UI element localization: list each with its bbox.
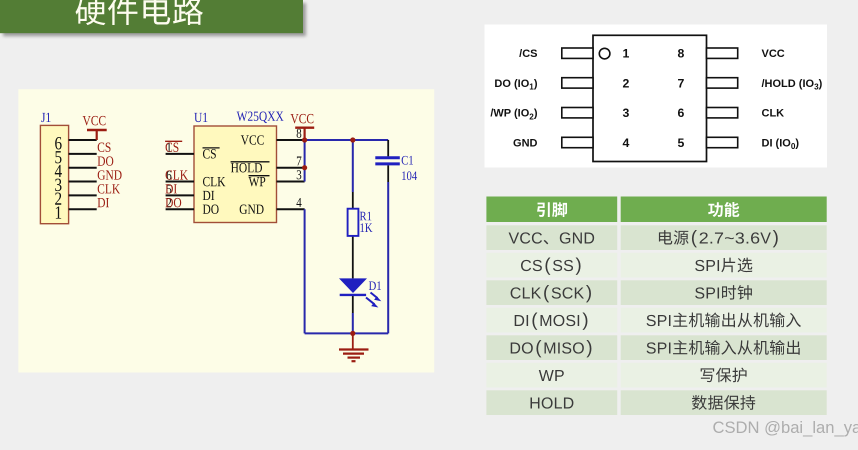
table row 2 background [486, 253, 826, 278]
U1 pin number 5 [167, 185, 171, 194]
U1 pin name WP [249, 176, 270, 187]
U1 pin name DI [203, 191, 214, 200]
label D1 [369, 281, 381, 290]
svg-text:CLK: CLK [762, 108, 785, 120]
net label CS (J1) [98, 143, 111, 152]
table cell text SPI主机输入从机输出 [647, 340, 800, 355]
wire U1 pin 2 stub [166, 208, 194, 210]
wire U1 pin 8 stub [277, 139, 305, 141]
wire C1 branch bottom [387, 165, 389, 333]
table cell text CS（SS） [521, 257, 581, 274]
wire U1 pin 1 stub [166, 153, 194, 155]
wire U1 pin 3 stub [277, 181, 305, 183]
J1 pin number 4 [55, 165, 62, 177]
wire J1 pin 1 stub [69, 208, 97, 210]
U1 pin name DO [203, 205, 219, 214]
svg-text:/CS: /CS [519, 48, 537, 60]
U1 pin number 1 [167, 143, 171, 152]
table row 5 background [486, 335, 826, 360]
svg-text:CSDN @bai_lan_ya: CSDN @bai_lan_ya [713, 418, 858, 437]
svg-text:VCC: VCC [762, 48, 785, 60]
schematic sheet background [18, 89, 434, 372]
pin stub left 1 [562, 48, 593, 58]
pin stub left 4 [562, 137, 593, 147]
net label CLK (U1 left) [166, 170, 188, 179]
refdes J1 [41, 113, 50, 122]
svg-text:8: 8 [678, 47, 685, 61]
U1 pin name VCC [241, 135, 264, 144]
net label VCC (U1) [291, 114, 314, 123]
wire vertical to pins 7 and 3 [304, 140, 306, 182]
svg-text:7: 7 [678, 76, 685, 90]
wire R1 to D1 [352, 236, 354, 279]
table cell text 电源（2.7~3.6V） [659, 230, 778, 247]
resistor R1 [348, 209, 359, 236]
junction node R1 top [350, 137, 355, 142]
value 104 [402, 171, 417, 180]
table cell text CLK（SCK） [511, 285, 591, 302]
J1 pin number 6 [55, 137, 61, 149]
U1 pin number 6 [167, 171, 172, 180]
LED D1 arrows [366, 293, 381, 308]
label R1 [360, 212, 371, 221]
net label DO (J1) [98, 156, 114, 165]
IC U1 body [194, 126, 277, 223]
wire U1 pin 7 stub [277, 167, 305, 169]
net label DI (U1 left) [165, 184, 176, 193]
value W25QXX [237, 112, 284, 124]
wire D1 to bottom rail [352, 295, 354, 333]
svg-text:/HOLD (IO3): /HOLD (IO3) [762, 78, 823, 92]
table row 1 background [486, 225, 826, 250]
table cell text SPI时钟 [695, 285, 752, 300]
wire R1 branch top [352, 140, 354, 209]
net label CS (U1 left) [165, 141, 182, 152]
wire U1 pin 5 stub [166, 194, 194, 196]
table cell text DI（MOSI） [515, 312, 588, 329]
net label VCC (J1) [83, 116, 106, 125]
pin stub left 2 [562, 78, 593, 88]
junction node ground rail [350, 331, 355, 336]
wire J1 pin 2 stub [69, 194, 97, 196]
ground symbol [339, 333, 369, 361]
power symbol VCC (J1) [87, 130, 107, 140]
junction node pin7 [302, 165, 307, 170]
wire J1 pin 4 stub [69, 167, 97, 169]
title banner [0, 0, 303, 33]
pinout panel background [485, 25, 828, 168]
U1 pin number 3 [297, 170, 302, 179]
wire U1 pin 6 stub [166, 181, 194, 183]
header text 功能 [708, 202, 739, 217]
svg-text:6: 6 [678, 106, 685, 120]
refdes U1 [194, 113, 207, 122]
net label DO (U1 left) [165, 198, 181, 207]
wire C1 branch top [387, 140, 389, 156]
wire U1 pin 4 stub [277, 208, 305, 210]
table cell text DO（MISO） [511, 340, 592, 357]
svg-text:5: 5 [678, 136, 685, 150]
U1 pin name CS [203, 148, 220, 159]
U1 pin number 4 [296, 198, 301, 207]
table cell text WP [539, 370, 564, 381]
J1 pin number 5 [55, 151, 61, 163]
table cell text SPI主机输出从机输入 [647, 313, 801, 328]
wire GND pin4 vertical [304, 209, 306, 333]
chip body (SOIC-8) [593, 35, 707, 161]
title text 硬件电路 [75, 0, 203, 25]
pin stub right 6 [707, 108, 738, 118]
net label GND (J1) [98, 170, 122, 179]
wire J1 pin 5 stub [69, 153, 97, 155]
net label CLK (J1) [98, 184, 120, 193]
svg-text:GND: GND [513, 138, 538, 150]
pin stub right 8 [707, 48, 738, 58]
connector J1 body [40, 125, 68, 223]
U1 pin name GND [240, 205, 264, 214]
net label DI (J1) [98, 198, 109, 207]
U1 pin name CLK [203, 177, 225, 186]
table cell text VCC、GND [509, 232, 595, 244]
table row 4 background [486, 308, 826, 333]
table header row [486, 197, 826, 223]
value 1K [360, 223, 372, 232]
wire J1 pin 3 stub [69, 181, 97, 183]
table row 6 background [486, 363, 826, 388]
J1 pin number 1 [56, 206, 61, 218]
header text 引脚 [537, 202, 567, 217]
table cell text 数据保持 [692, 395, 755, 410]
pin stub right 7 [707, 78, 738, 88]
svg-text:2: 2 [623, 76, 630, 90]
svg-text:4: 4 [623, 136, 630, 150]
pin stub right 5 [707, 137, 738, 147]
svg-text:1: 1 [623, 47, 630, 61]
U1 pin number 2 [167, 198, 171, 207]
table cell text HOLD [531, 397, 574, 408]
wire J1 pin 6 stub [69, 139, 97, 141]
U1 pin number 8 [297, 129, 302, 138]
J1 pin number 3 [55, 179, 61, 191]
svg-text:3: 3 [623, 106, 630, 120]
wire VCC rail horizontal [305, 139, 389, 141]
power symbol VCC (U1 pin 8) [295, 128, 314, 140]
wire bottom rail [305, 332, 389, 334]
table row 7 background [486, 390, 826, 415]
pin stub left 3 [562, 108, 593, 118]
table row 3 background [486, 280, 826, 305]
junction node VCC rail / pin8 [302, 137, 307, 142]
table cell text SPI片选 [695, 258, 752, 273]
watermark CSDN @bai_lan_ya [713, 418, 858, 437]
U1 pin name HOLD [231, 162, 270, 173]
label C1 [402, 156, 413, 165]
capacitor C1 [375, 158, 400, 164]
LED D1 [339, 278, 367, 295]
table cell text 写保护 [701, 368, 747, 383]
U1 pin number 7 [297, 157, 301, 166]
J1 pin number 2 [55, 192, 61, 204]
pin 1 indicator circle [599, 48, 610, 59]
